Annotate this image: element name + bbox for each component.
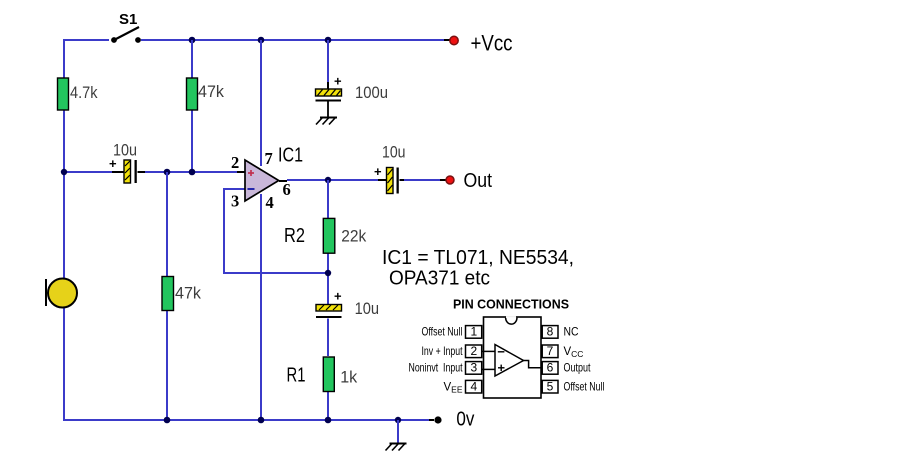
wire feedback pin3 — [224, 189, 328, 273]
wire top rail left segment — [64, 40, 109, 41]
node junction output — [325, 177, 331, 183]
capacitor C2 10u output — [374, 143, 406, 194]
svg-text:1: 1 — [470, 325, 477, 339]
wire left rail upper — [63, 39, 65, 279]
capacitor 100u — [316, 74, 389, 118]
wire cap to R1 — [327, 319, 329, 421]
wire bottom rail — [64, 419, 434, 421]
svg-text:4: 4 — [266, 193, 274, 212]
pin 5 box — [542, 380, 558, 394]
note IC1 types — [382, 246, 574, 290]
svg-text:IC1: IC1 — [278, 145, 303, 167]
wire 100u branch — [327, 40, 329, 89]
node junction left rail input — [61, 169, 67, 175]
svg-text:Noninvt Input: Noninvt Input — [409, 361, 463, 375]
pin 4 box — [466, 380, 482, 394]
svg-text:Output: Output — [564, 361, 591, 375]
resistor R1 1k — [287, 357, 358, 392]
terminal Out — [446, 170, 492, 192]
svg-text:NC: NC — [564, 325, 579, 339]
svg-text:OPA371 etc: OPA371 etc — [389, 267, 490, 290]
svg-text:Inv + Input: Inv + Input — [422, 344, 463, 358]
resistor R2 22k — [284, 218, 367, 253]
svg-text:Offset Null: Offset Null — [422, 325, 463, 339]
wire pin3 to opamp — [482, 368, 495, 370]
svg-text:47k: 47k — [175, 284, 201, 303]
resistor 4.7k — [58, 78, 98, 110]
svg-text:Out: Out — [464, 170, 493, 192]
wire 47k top branch — [191, 40, 193, 173]
svg-text:S1: S1 — [119, 11, 137, 28]
svg-text:3: 3 — [470, 361, 477, 375]
svg-text:+: + — [334, 74, 342, 89]
svg-text:7: 7 — [265, 149, 273, 168]
svg-text:22k: 22k — [341, 227, 366, 246]
svg-text:6: 6 — [547, 361, 554, 375]
svg-text:R2: R2 — [284, 224, 305, 247]
svg-text:10u: 10u — [113, 141, 137, 160]
wire 47k lower branch — [166, 172, 168, 420]
wire top rail right segment — [141, 39, 450, 41]
terminal +Vcc — [450, 31, 513, 56]
svg-text:10u: 10u — [382, 143, 406, 162]
svg-text:PIN CONNECTIONS: PIN CONNECTIONS — [453, 298, 569, 312]
DIP-8 package U1 — [484, 317, 542, 398]
microphone MIC — [46, 279, 77, 308]
svg-text:47k: 47k — [198, 82, 224, 101]
svg-text:100u: 100u — [355, 83, 388, 102]
op-amp IC1 — [231, 145, 303, 213]
ground bottom — [386, 444, 407, 451]
svg-text:4: 4 — [470, 380, 477, 394]
svg-text:4.7k: 4.7k — [70, 83, 98, 102]
capacitor C3 10u feedback — [316, 289, 379, 319]
node junction bottom ground — [395, 417, 401, 423]
switch S1 — [111, 11, 141, 43]
svg-text:3: 3 — [231, 192, 239, 211]
node junction bottom R1 — [325, 417, 332, 424]
node junction feedback — [325, 270, 331, 276]
node junction top rail at pin7 wire — [258, 37, 265, 44]
svg-text:0v: 0v — [456, 409, 474, 431]
pin 1 box — [466, 325, 482, 339]
pin 2 box — [466, 344, 482, 358]
wire op-amp supply pin7 — [260, 40, 262, 166]
svg-text:2: 2 — [470, 344, 477, 358]
wire opamp to pin6 — [524, 361, 543, 368]
wire input node horizontal — [64, 171, 246, 173]
svg-text:2: 2 — [231, 153, 239, 172]
svg-text:+: + — [374, 164, 382, 179]
svg-text:1k: 1k — [340, 368, 357, 387]
wire left rail lower — [63, 307, 65, 421]
node junction bottom 47k — [164, 417, 171, 424]
pin 3 box — [466, 361, 482, 375]
node junction 47k top tap — [189, 169, 196, 176]
svg-text:5: 5 — [547, 380, 554, 394]
terminal 0v — [434, 409, 474, 431]
wire pin2 to opamp — [482, 350, 495, 352]
wire ground stub — [397, 420, 399, 443]
node junction bottom pin4 — [258, 417, 265, 424]
node junction top rail at 100u — [325, 37, 332, 44]
op-amp symbol inside DIP — [495, 345, 524, 377]
capacitor C1 10u input — [109, 141, 137, 184]
pin 6 box — [542, 361, 558, 375]
wire op-amp supply pin4 — [260, 194, 262, 420]
svg-text:6: 6 — [283, 180, 291, 199]
resistor 47k lower — [162, 277, 201, 311]
svg-text:+: + — [334, 289, 342, 304]
svg-text:10u: 10u — [355, 299, 380, 318]
svg-text:+Vcc: +Vcc — [471, 31, 513, 56]
resistor 47k top — [187, 78, 225, 110]
wire R2 branch — [327, 180, 329, 304]
svg-text:Offset Null: Offset Null — [564, 380, 605, 394]
svg-text:7: 7 — [547, 344, 554, 358]
wire output — [279, 180, 446, 181]
pin 7 box — [542, 344, 558, 358]
pin 8 box — [542, 325, 558, 339]
svg-text:R1: R1 — [287, 364, 306, 387]
svg-text:8: 8 — [547, 325, 554, 339]
ground under 100u — [316, 118, 337, 125]
node junction 47k lower tap — [164, 169, 171, 176]
node junction top rail at 47k — [189, 37, 196, 44]
